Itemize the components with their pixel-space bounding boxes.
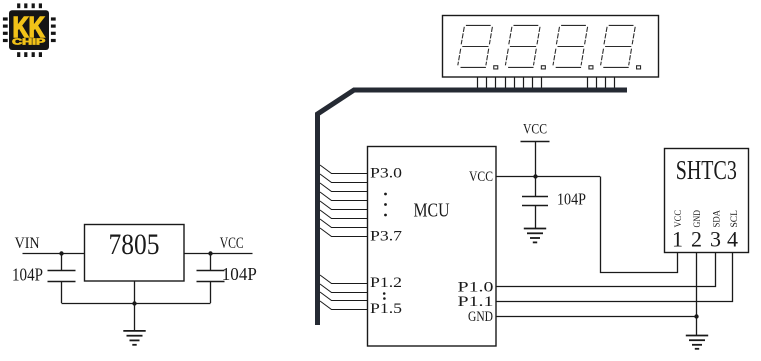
wire P1.0 to SHTC3 pin3 (SDA) [496,253,716,287]
junction VCC-C3 [533,174,537,178]
wire 7805 output [184,253,253,255]
power symbol VCC bar [521,141,550,143]
wire MCU VCC to net [496,176,600,178]
svg-text:VIN: VIN [15,235,40,252]
wire GND to SHTC3 pin2 [496,253,697,317]
svg-text:P3.7: P3.7 [370,228,403,244]
wire ground rail 7805 [62,303,211,305]
svg-text:GND: GND [468,309,493,325]
wire: thick display bus [318,90,628,325]
svg-text:SCL: SCL [730,210,740,228]
svg-text:SHTC3: SHTC3 [676,154,737,185]
ground (GND net) [686,336,708,349]
capacitor C3 104P [522,177,548,229]
wire VCC to SHTC3 pin1 [601,177,678,273]
svg-text:7805: 7805 [109,229,160,261]
7-segment display DS1 [443,16,659,89]
junction ground rail [132,301,136,305]
junction GND net [694,314,698,318]
logo KK CHIP [3,3,56,57]
svg-text:SDA: SDA [712,210,722,228]
svg-text:104P: 104P [222,264,257,284]
svg-text:VCC: VCC [674,210,684,228]
svg-text:1: 1 [672,227,683,252]
svg-text:VCC: VCC [220,235,244,252]
svg-text:3: 3 [710,227,721,252]
svg-text:CHIP: CHIP [12,38,46,47]
wire 7805 ground lead [134,281,136,331]
digit 2 (7-segment) [505,25,545,68]
svg-text:P1.0: P1.0 [458,279,494,295]
ellipsis dots P3 [384,193,387,217]
regulator 7805 [85,225,185,282]
capacitor C2 104P [197,254,225,304]
ground (7805) [123,331,145,345]
sensor U2 SHTC3 [665,149,749,253]
svg-text:4: 4 [727,227,738,252]
digit 3 (7-segment) [553,25,593,68]
junction VCC-C2 [208,251,212,255]
svg-text:P1.5: P1.5 [370,301,402,317]
wires: P3.0-P3.7 fan from bus [320,165,367,237]
svg-text:GND: GND [693,210,703,228]
svg-text:P1.1: P1.1 [458,294,494,310]
wire VIN input [23,253,85,255]
ellipsis dots P1 [383,292,386,300]
svg-text:VCC: VCC [523,122,547,138]
display pins [478,77,615,88]
junction VIN-C1 [59,251,63,255]
capacitor C1 104P [48,254,76,304]
svg-text:VCC: VCC [469,169,493,185]
digit 4 (7-segment) [601,25,641,68]
wire P1.1 to SHTC3 pin4 (SCL) [496,253,733,302]
wire ground stem (GND net) [696,317,698,336]
wire VCC stem [535,142,537,177]
svg-text:P3.0: P3.0 [370,165,402,181]
ground (C3) [524,229,546,243]
svg-text:104P: 104P [557,190,586,209]
digit 1 (7-segment) [458,25,641,68]
svg-text:104P: 104P [12,265,43,285]
svg-text:P1.2: P1.2 [370,275,402,291]
svg-text:MCU: MCU [414,200,450,222]
MCU U1 [368,147,497,347]
wires: P1.2-P1.5 fan from bus [320,275,367,310]
svg-text:2: 2 [691,227,702,252]
